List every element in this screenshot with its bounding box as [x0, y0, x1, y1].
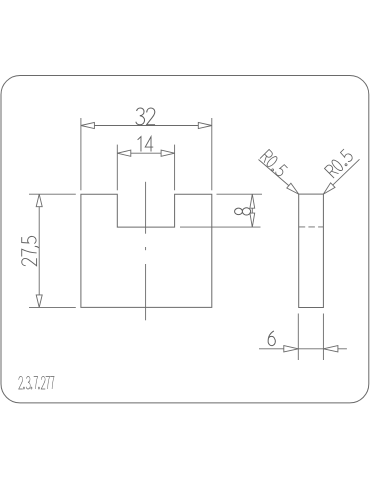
leader R0.5 left — [259, 160, 299, 195]
extension lines — [80, 118, 82, 190]
dimension line — [117, 152, 174, 154]
extension lines — [217, 193, 263, 195]
arrows — [117, 150, 131, 156]
extension lines — [116, 145, 118, 191]
side view rectangle — [299, 194, 324, 307]
text R0.5 left — [260, 149, 288, 177]
dim 8 (notch depth) — [180, 194, 262, 227]
text 32 — [136, 108, 155, 125]
dimension line — [38, 194, 40, 307]
dim 27,5 — [29, 194, 76, 307]
text 14 — [138, 137, 154, 152]
doc number 2.3.7.277 — [19, 377, 54, 389]
part outline (front view with notch) — [81, 194, 212, 307]
arrows — [81, 122, 95, 128]
leader R0.5 right — [323, 159, 359, 194]
arrows — [36, 194, 42, 207]
text 8 — [235, 208, 251, 215]
text R0.5 right — [325, 149, 355, 179]
dim 14 — [117, 145, 174, 191]
drawing frame border — [1, 76, 369, 403]
dimension line — [81, 125, 212, 127]
arrows — [250, 194, 255, 208]
hidden dashed line — [299, 226, 324, 228]
dim 32 — [81, 118, 212, 190]
centerline — [145, 182, 147, 320]
extension lines — [297, 314, 299, 361]
text 27,5 — [22, 236, 39, 265]
dimension line — [251, 194, 253, 227]
dimension line — [259, 348, 347, 350]
arrows — [284, 346, 299, 352]
dim 6 — [259, 314, 347, 361]
extension lines — [29, 193, 76, 195]
text 6 — [268, 331, 275, 346]
